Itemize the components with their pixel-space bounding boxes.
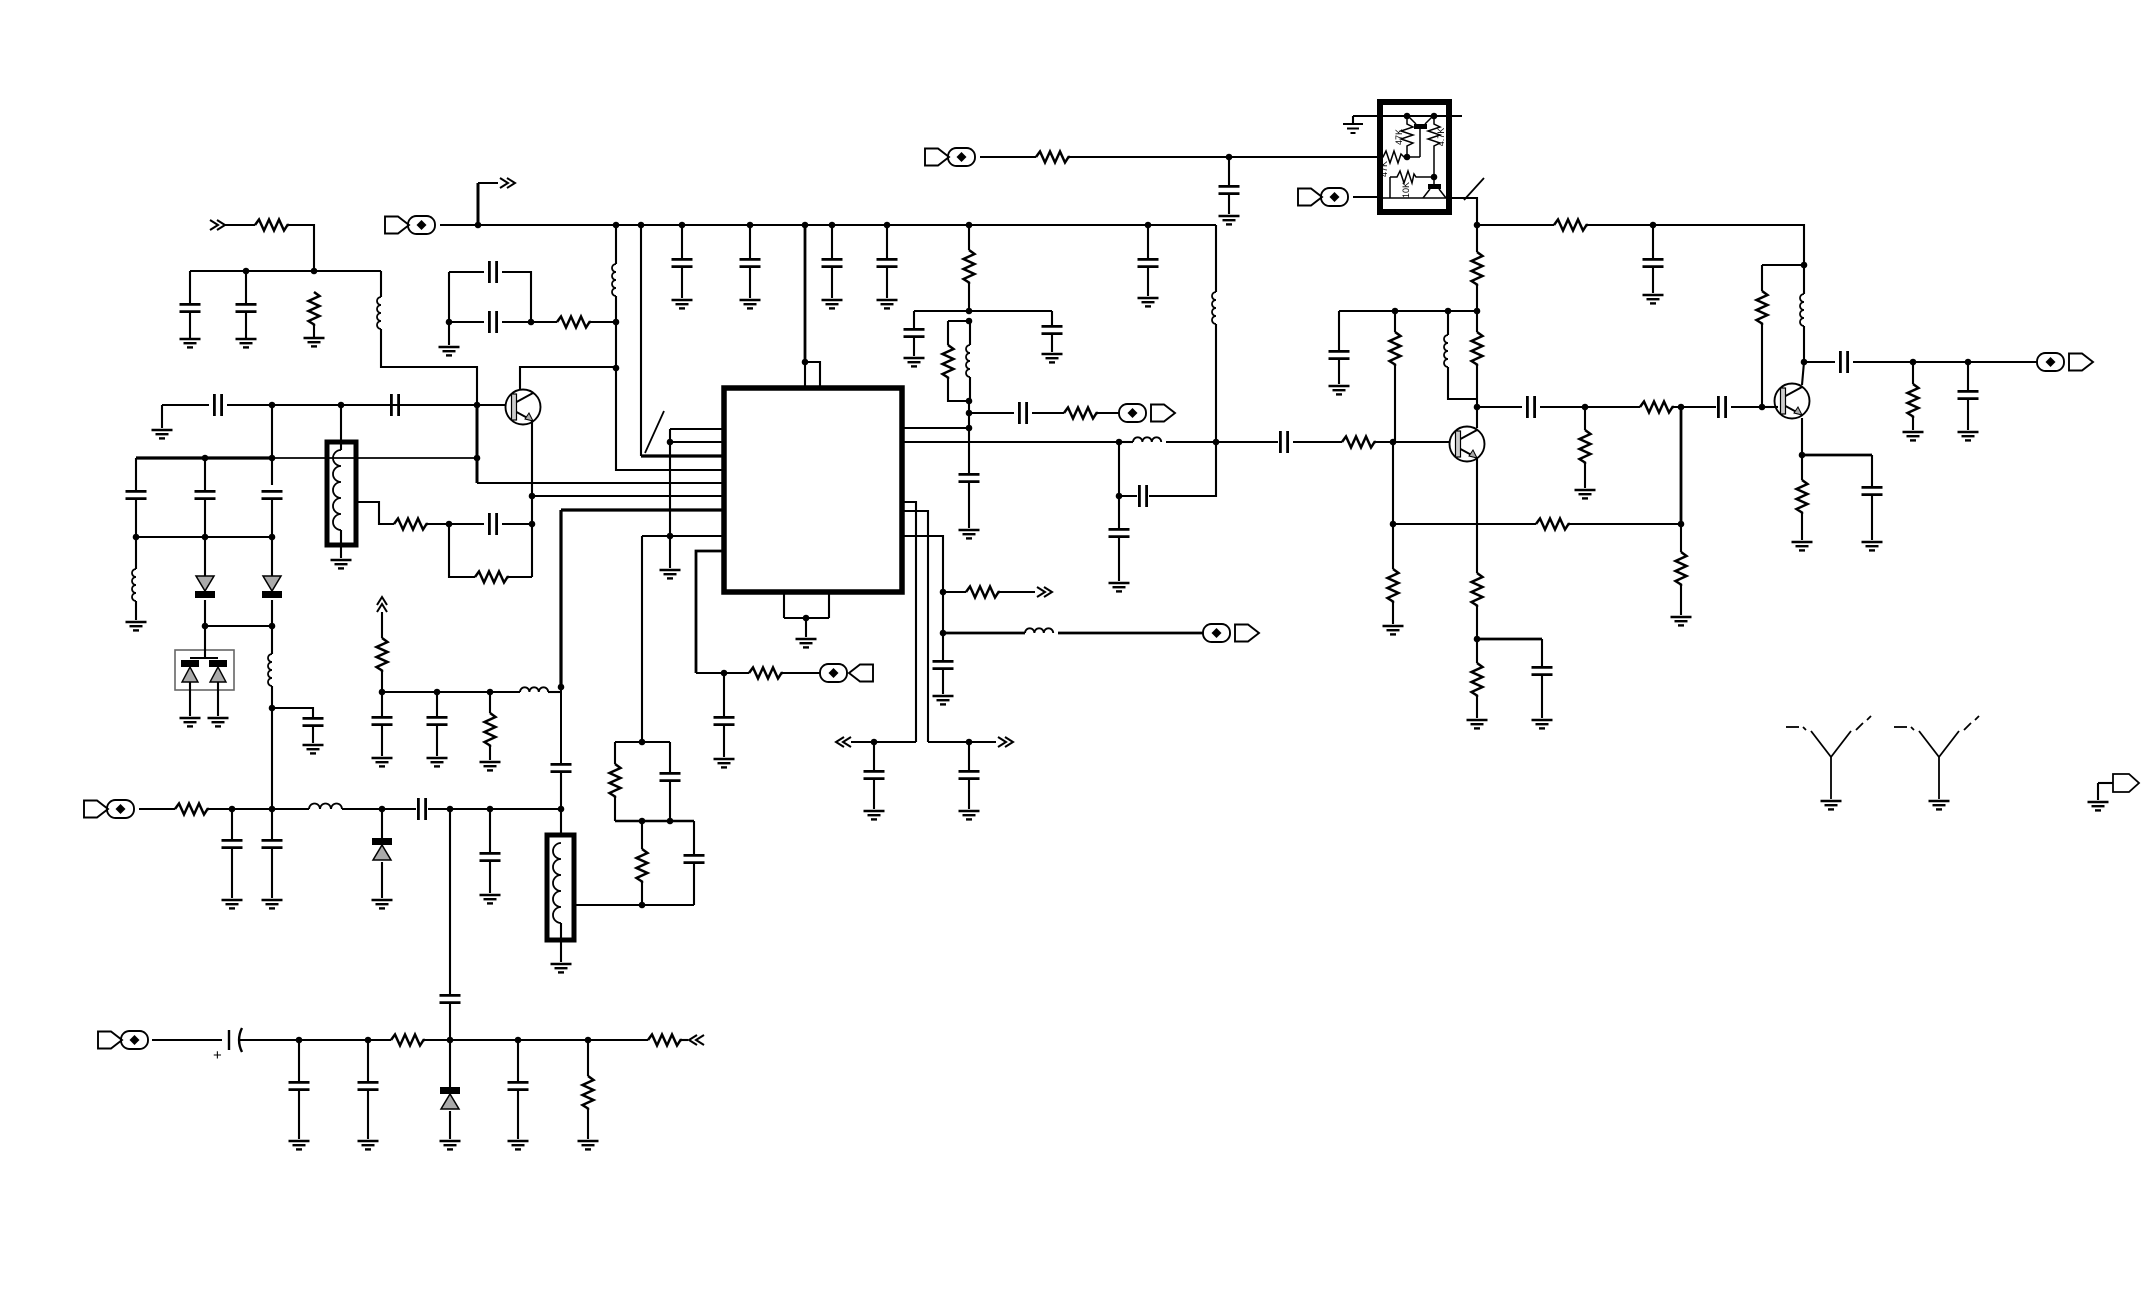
resistor R9 (1036, 152, 1070, 163)
ground (1383, 626, 1404, 634)
wire (1804, 361, 1835, 363)
capacitor C37 (551, 764, 572, 771)
net arrow right (998, 737, 1013, 747)
junction (1431, 113, 1438, 120)
resistor R33 (648, 1035, 682, 1046)
wire (245, 271, 247, 303)
wire (968, 225, 970, 250)
wire (1652, 268, 1654, 293)
wire (271, 500, 273, 537)
capacitor C40 (372, 717, 393, 724)
capacitor C33 (714, 717, 735, 724)
wire (382, 691, 520, 693)
capacitor C10 (195, 491, 216, 498)
wire (669, 782, 671, 821)
wire (271, 686, 273, 809)
junction (747, 222, 754, 229)
wire (1476, 286, 1478, 311)
wire (641, 821, 643, 849)
ground (1138, 298, 1159, 306)
svg-text:47K: 47K (1394, 129, 1404, 145)
wire (2097, 783, 2099, 800)
junction (447, 806, 454, 813)
wire (873, 742, 875, 770)
wire (1051, 335, 1053, 352)
wire Q1 collector (520, 367, 616, 390)
wire (1541, 639, 1543, 666)
wire (152, 1039, 222, 1041)
resistor R29 (377, 638, 388, 672)
wire (135, 458, 137, 490)
junction (202, 534, 209, 541)
wire (381, 692, 383, 716)
wire (189, 682, 191, 716)
wire (1166, 441, 1216, 443)
junction (311, 268, 318, 275)
diode pair box D3 (175, 650, 234, 690)
shielded coil T2 (547, 835, 574, 940)
wire (969, 412, 1014, 414)
wire (1476, 697, 1478, 718)
capacitor C7 (262, 491, 283, 498)
resistor R2 (309, 292, 320, 326)
wire (1540, 406, 1585, 408)
wire (449, 809, 451, 994)
wire IC pin 1 (670, 428, 724, 430)
junction (447, 1037, 454, 1044)
capacitor C42 (418, 798, 425, 820)
capacitor C48 (289, 1082, 310, 1089)
connector J4 (1298, 188, 1348, 206)
ground (1903, 432, 1924, 440)
wire (1118, 442, 1120, 496)
wire (477, 183, 480, 225)
junction (269, 806, 276, 813)
diode D3a (181, 660, 199, 682)
wire (948, 379, 970, 401)
junction (1445, 308, 1452, 315)
capacitor C20 (1219, 186, 1240, 193)
wire (135, 537, 137, 569)
wire (module bottom rail) (1380, 197, 1449, 199)
junction (613, 319, 620, 326)
resistor R16 (1676, 552, 1687, 586)
svg-text:+: + (213, 1047, 222, 1064)
wire (205, 625, 272, 627)
capacitor C25 (1718, 396, 1725, 418)
diode D2 (195, 576, 215, 598)
junction (966, 318, 973, 325)
junction (667, 439, 674, 446)
inductor L1 (377, 297, 381, 329)
capacitor C41 (427, 717, 448, 724)
wire (271, 626, 273, 654)
capacitor C4 (391, 394, 398, 416)
ground (262, 900, 283, 908)
transistor (module T2) (1423, 177, 1446, 198)
wire (1119, 495, 1137, 497)
wire supply bus (440, 224, 1216, 226)
wire (1476, 607, 1478, 639)
junction (1213, 439, 1220, 446)
wire (693, 821, 695, 854)
wire (227, 404, 477, 406)
wire (804, 362, 806, 387)
junction (487, 806, 494, 813)
transistor (module T1) (1409, 117, 1432, 157)
wire (313, 326, 315, 338)
ground (672, 300, 693, 308)
junction (1116, 493, 1123, 500)
ground (440, 1141, 461, 1149)
wire RF in bus (209, 808, 309, 810)
capacitor C12 (672, 259, 693, 266)
wire (1585, 406, 1640, 408)
junction (529, 521, 536, 528)
ground (1109, 583, 1130, 591)
junction (966, 222, 973, 229)
wire (1680, 524, 1682, 552)
wire (190, 657, 218, 659)
wire (1119, 441, 1133, 443)
wire (851, 741, 916, 743)
wire (1803, 265, 1805, 294)
wire (804, 225, 807, 362)
wire (1912, 362, 1914, 384)
antenna ANT1 ground (1821, 801, 1842, 809)
ground (1958, 432, 1979, 440)
resistor R11 (1472, 252, 1483, 286)
junction (1965, 359, 1972, 366)
resistor R4 (394, 519, 428, 530)
junction (269, 402, 276, 409)
wire (943, 632, 1025, 635)
capacitor C30 (1840, 351, 1847, 373)
capacitor C11 (489, 513, 496, 535)
wire (312, 727, 314, 743)
ground (660, 570, 681, 578)
net arrow out (500, 178, 515, 188)
wire (231, 809, 233, 839)
wire (1674, 406, 1716, 408)
capacitor C44 (262, 840, 283, 847)
junction (638, 222, 645, 229)
ground (439, 347, 460, 355)
wire (968, 742, 970, 770)
wire (436, 692, 438, 716)
wire (298, 1040, 300, 1081)
wire Q1 emitter (531, 420, 533, 577)
wire (942, 670, 944, 694)
resistor R25 (749, 668, 783, 679)
junction (1474, 308, 1481, 315)
wire (1149, 442, 1216, 496)
wire (1680, 407, 1683, 524)
ground (740, 300, 761, 308)
wire to Q1 base (477, 404, 506, 406)
wire (271, 405, 273, 485)
wire (449, 1111, 451, 1139)
net arrow in (top left) (210, 220, 225, 230)
wire (723, 726, 725, 757)
wire (340, 530, 342, 558)
inductor L6 (1212, 292, 1216, 324)
wire (873, 780, 875, 809)
wire (784, 617, 829, 619)
capacitor C3 (214, 394, 221, 416)
capacitor C22 (1643, 259, 1664, 266)
capacitor C43 (222, 840, 243, 847)
wire output (1853, 361, 2037, 363)
wire (1215, 324, 1217, 442)
electrolytic cap C47 (229, 1028, 242, 1052)
ground (904, 358, 925, 366)
wire (969, 321, 971, 345)
wire (669, 429, 671, 442)
inductor L10 (1025, 628, 1053, 633)
junction (558, 806, 565, 813)
junction (1650, 222, 1657, 229)
junction (379, 806, 386, 813)
wire (189, 271, 191, 303)
capacitor C21 (1138, 259, 1159, 266)
ground (180, 718, 201, 726)
junction (803, 615, 810, 622)
junction (269, 534, 276, 541)
wire (135, 601, 137, 620)
wire (587, 1040, 589, 1076)
junction (1431, 174, 1438, 181)
wire (204, 458, 206, 490)
junction (202, 623, 209, 630)
wire (948, 320, 970, 322)
wire (805, 618, 807, 637)
junction (585, 1037, 592, 1044)
wire (272, 708, 313, 717)
junction (296, 1037, 303, 1044)
wire (1801, 514, 1803, 540)
capacitor C18 (1019, 402, 1026, 424)
junction (966, 308, 973, 315)
wire bus VCC1 (190, 270, 381, 272)
junction (1145, 222, 1152, 229)
wire (436, 726, 438, 756)
wire (1680, 586, 1682, 615)
wire IC pin 7 (561, 508, 724, 511)
junction (475, 222, 482, 229)
wire (1000, 591, 1035, 593)
wire (245, 312, 247, 339)
junction (966, 739, 973, 746)
wire (502, 272, 531, 322)
wire (560, 923, 562, 940)
wire (1912, 418, 1914, 430)
wire (913, 311, 915, 328)
wire (1802, 454, 1872, 457)
junction (446, 319, 453, 326)
junction (1116, 439, 1123, 446)
wire (615, 225, 617, 264)
net arrow right2 (1037, 587, 1052, 597)
wire (1871, 455, 1873, 486)
wire IC pin 8 (642, 535, 724, 537)
capacitor C13 (740, 259, 761, 266)
wire (478, 182, 498, 184)
antenna ANT1 (1786, 716, 1871, 799)
wire (928, 741, 969, 743)
wire (449, 524, 475, 577)
wire (204, 500, 206, 537)
ground (372, 758, 393, 766)
wire (942, 592, 944, 633)
wire (428, 808, 561, 810)
wire (693, 864, 695, 905)
wire (1588, 225, 1804, 265)
junction (639, 739, 646, 746)
wire (1147, 225, 1149, 258)
inductor L5 (966, 345, 970, 377)
wire to Q2 base (1376, 441, 1450, 443)
ground (1042, 354, 1063, 362)
ground (427, 758, 448, 766)
wire (1476, 311, 1478, 332)
wire (489, 692, 491, 713)
inductor T1 coil (333, 450, 341, 530)
ground (551, 964, 572, 972)
junction (802, 222, 809, 229)
wire (509, 576, 532, 578)
wire Q2 collector (1476, 407, 1478, 428)
diode D5 (440, 1087, 460, 1109)
switch slash (1464, 178, 1484, 200)
wire IC pin (902, 427, 969, 429)
connector J2 (1119, 404, 1175, 422)
wire (380, 271, 382, 297)
junction (1582, 404, 1589, 411)
resistor 4.7K (module) (1428, 116, 1440, 177)
wire (204, 600, 206, 626)
capacitor C38 (660, 773, 681, 780)
junction (1474, 404, 1481, 411)
connector J3 (925, 148, 975, 166)
wire IC pin (902, 502, 916, 742)
connector J6 (820, 664, 873, 682)
wire IC bottom pin (783, 592, 785, 618)
resistor R1 (255, 220, 289, 231)
inductor L7 (1444, 335, 1448, 367)
ground (959, 530, 980, 538)
wire (681, 225, 683, 258)
antenna ANT2 ground (1929, 801, 1950, 809)
wire Q3 emitter (1801, 418, 1803, 455)
capacitor C46 (480, 853, 501, 860)
ground (933, 696, 954, 704)
wire (642, 904, 694, 906)
net arrow left2 (689, 1035, 704, 1045)
junction (966, 410, 973, 417)
junction (434, 689, 441, 696)
wire IC pin gnd (696, 551, 724, 673)
ground (1532, 720, 1553, 728)
ground (1671, 617, 1692, 625)
ground (331, 560, 352, 568)
ground (1575, 490, 1596, 498)
junction (1474, 636, 1481, 643)
ground (1862, 542, 1883, 550)
wire IF out (902, 441, 1119, 443)
junction (940, 589, 947, 596)
ground (822, 300, 843, 308)
ground (152, 430, 173, 438)
capacitor C27 (1139, 485, 1146, 507)
junction (1390, 439, 1397, 446)
wire IC pin (902, 536, 943, 592)
svg-text:4.7K: 4.7K (1436, 128, 1446, 147)
wire (1477, 406, 1522, 408)
wire (641, 883, 643, 905)
wire (225, 224, 255, 226)
wire (1871, 496, 1873, 540)
wire (886, 225, 888, 258)
wire (749, 268, 751, 298)
wire (943, 591, 966, 593)
wire (161, 405, 163, 428)
wire (560, 687, 562, 763)
wire (367, 1091, 369, 1139)
wire AGC bus (136, 456, 272, 459)
resistor R21 (1388, 569, 1399, 603)
junction (1678, 521, 1685, 528)
wire (367, 1040, 369, 1081)
capacitor C36 (933, 661, 954, 668)
ground (1467, 720, 1488, 728)
wire (641, 536, 643, 742)
wire (1570, 523, 1681, 525)
ground (236, 339, 257, 347)
wire (723, 673, 725, 716)
resistor R22 (1757, 291, 1768, 325)
wire (969, 741, 996, 743)
resistor 10K (module) (1390, 171, 1434, 183)
ground (796, 639, 817, 647)
wire (428, 523, 449, 525)
wire (404, 404, 477, 406)
ground (126, 622, 147, 630)
wire (696, 672, 724, 674)
ground (864, 811, 885, 819)
capacitor C29 (1532, 667, 1553, 674)
junction (529, 493, 536, 500)
wire (189, 312, 191, 339)
wire (783, 672, 820, 674)
wire (968, 401, 970, 428)
resistor R7 (943, 345, 954, 379)
capacitor C6 (489, 311, 496, 333)
diode D4 (372, 838, 392, 860)
junction (243, 268, 250, 275)
wire (381, 329, 477, 405)
wire (489, 862, 491, 893)
junction (528, 319, 535, 326)
wire (449, 523, 484, 525)
junction (515, 1037, 522, 1044)
no-connect slash (645, 411, 664, 453)
wire (2098, 782, 2113, 784)
wire (831, 268, 833, 298)
wire (489, 747, 491, 760)
wire T2 tap (574, 904, 642, 906)
junction (1392, 308, 1399, 315)
